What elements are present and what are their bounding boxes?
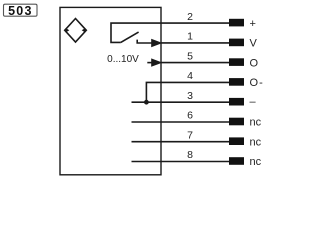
svg-text:O: O [250, 57, 259, 69]
svg-text:3: 3 [187, 90, 193, 102]
svg-text:0...10V: 0...10V [107, 54, 139, 65]
sensor symbol diamond [65, 19, 87, 43]
wire pin1 [161, 42, 229, 44]
svg-text:V: V [250, 38, 258, 50]
svg-text:503: 503 [8, 4, 32, 18]
terminal blocks [229, 19, 244, 165]
arrow pin1 [151, 39, 162, 47]
wire pin3 [132, 101, 230, 103]
svg-text:O-: O- [250, 77, 264, 89]
switch blade [121, 32, 139, 42]
svg-text:5: 5 [187, 50, 193, 62]
wire pin6 [132, 121, 230, 123]
svg-text:nc: nc [250, 136, 262, 148]
svg-text:1: 1 [187, 31, 193, 43]
svg-text:nc: nc [250, 117, 262, 129]
wire pin7 [132, 141, 230, 143]
junction dot [144, 100, 149, 105]
svg-text:7: 7 [187, 129, 193, 141]
svg-text:+: + [250, 18, 256, 30]
svg-text:8: 8 [187, 149, 193, 161]
arrow pin5 [147, 62, 153, 64]
svg-text:4: 4 [187, 70, 193, 82]
svg-text:–: – [250, 96, 257, 108]
switch fixed contact [137, 40, 152, 43]
sensor box [60, 7, 161, 174]
wire pin2 into switch [111, 23, 229, 42]
wire pin8 [132, 161, 230, 163]
svg-text:6: 6 [187, 110, 193, 122]
label box 503 [4, 4, 38, 18]
wire pin5 [161, 62, 229, 64]
terminal labels [250, 18, 264, 168]
pin numbers [187, 11, 193, 161]
svg-text:2: 2 [187, 11, 193, 23]
wire pin4 [146, 82, 229, 102]
svg-text:nc: nc [250, 156, 262, 168]
